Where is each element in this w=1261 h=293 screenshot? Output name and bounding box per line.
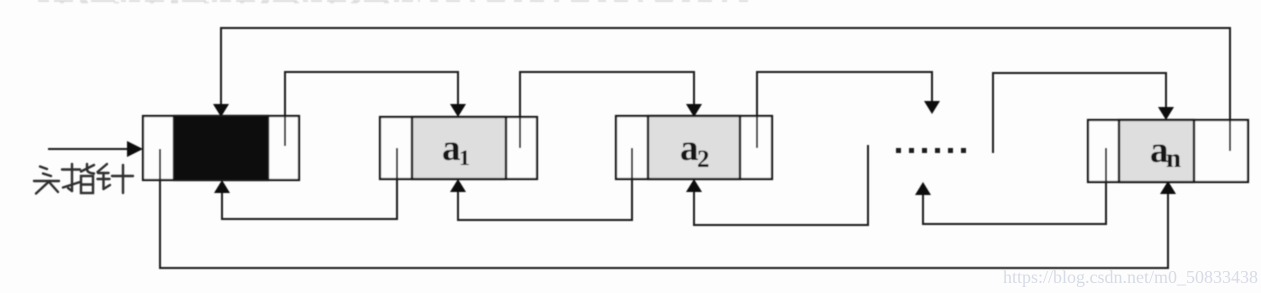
svg-text:2: 2 <box>697 146 710 173</box>
svg-text:a: a <box>442 128 461 169</box>
svg-text:a: a <box>680 128 699 169</box>
svg-text:1: 1 <box>459 145 470 170</box>
svg-text:https://blog.csdn.net/m0_50833: https://blog.csdn.net/m0_50833438 <box>1003 267 1258 287</box>
svg-text:n: n <box>1166 143 1181 173</box>
